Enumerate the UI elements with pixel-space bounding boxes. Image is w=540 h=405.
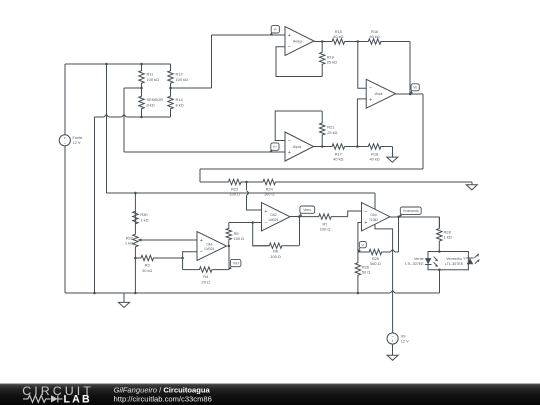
- LED D1 emission arrows: [434, 257, 438, 261]
- node R28 to LED box top: [438, 250, 441, 253]
- resistor R7: [299, 214, 347, 219]
- svg-text:R28: R28: [444, 229, 451, 234]
- op-amp IAout: [366, 79, 395, 108]
- svg-text:40 kΩ: 40 kΩ: [369, 34, 379, 39]
- node bridge left mid junction: [140, 87, 143, 90]
- resistor R5 to OA2 inverting input: [226, 223, 231, 247]
- resistor R15: [322, 39, 358, 44]
- wire output corner down to R28: [438, 217, 440, 228]
- node R3 left junction: [134, 257, 137, 260]
- svg-text:Vcomando: Vcomando: [403, 209, 419, 213]
- svg-text:8 kΩ: 8 kΩ: [176, 103, 184, 108]
- voltage source Fonte 12 V: [59, 135, 70, 146]
- node OA1 output junction: [228, 245, 231, 248]
- op-amp OA4 TL082: [362, 203, 391, 232]
- wire V+ branch to IApos input: [124, 151, 285, 153]
- wire IAneg feedback loop: [276, 47, 322, 77]
- resistor R16: [358, 39, 410, 44]
- junction dots ground rail: [93, 292, 96, 295]
- wire OA1 output down to R4: [228, 246, 230, 270]
- svg-text:Verde: Verde: [414, 257, 424, 261]
- potentiometer R22 wiper arrow: [137, 239, 141, 242]
- svg-text:−: −: [288, 138, 291, 144]
- node R26 ground rail junction: [357, 292, 360, 295]
- net flag Verro: [299, 213, 300, 217]
- svg-text:R19: R19: [327, 54, 334, 59]
- svg-text:IAout: IAout: [375, 92, 383, 96]
- svg-text:20 kΩ: 20 kΩ: [142, 268, 152, 273]
- wire IApos feedback loop: [275, 111, 322, 141]
- node IAneg output junction: [321, 40, 324, 43]
- wire Vo horizontal run: [200, 168, 423, 170]
- wire bridge bottom to ground rail: [94, 117, 96, 293]
- svg-text:25 kΩ: 25 kΩ: [327, 60, 337, 65]
- wire feedback up to output: [298, 217, 300, 246]
- wire OA4 output to R28: [390, 216, 439, 218]
- svg-text:+: +: [369, 97, 372, 103]
- svg-text:R22: R22: [126, 235, 133, 240]
- svg-text:−: −: [200, 250, 203, 256]
- svg-text:−: −: [369, 86, 372, 92]
- svg-text:25 kΩ: 25 kΩ: [327, 130, 337, 135]
- wire hop R25 over 12V drop: [390, 250, 395, 252]
- op-amp IApos: [285, 132, 314, 161]
- resistor R28: [437, 217, 442, 252]
- svg-text:+: +: [288, 150, 291, 156]
- node R3-R4 junction: [181, 257, 184, 260]
- node R17-R18 junction: [356, 145, 359, 148]
- svg-text:−: −: [364, 209, 367, 215]
- wire hop bridge rail over 12V drop: [104, 115, 109, 117]
- wire V+ branch vertical: [123, 88, 125, 152]
- svg-text:LM324: LM324: [269, 218, 279, 222]
- svg-text:http://circuitlab.com/c33cm86: http://circuitlab.com/c33cm86: [114, 395, 212, 404]
- svg-text:R6: R6: [273, 249, 278, 254]
- net flag Vcomando: [399, 214, 401, 217]
- svg-text:GilFangueiro / Circuitoagua: GilFangueiro / Circuitoagua: [114, 386, 211, 395]
- resistor R12 bridge top-right: [168, 64, 173, 88]
- svg-text:100 Ω: 100 Ω: [264, 192, 275, 197]
- svg-text:OA1: OA1: [206, 242, 213, 246]
- svg-text:R14: R14: [176, 97, 184, 102]
- svg-text:OA4: OA4: [370, 213, 377, 217]
- svg-text:LAB: LAB: [64, 394, 92, 405]
- svg-text:1 kΩ: 1 kΩ: [125, 241, 133, 246]
- op-amp IAneg: [285, 27, 314, 56]
- wire IAout output to Vo: [396, 93, 423, 95]
- node R15-R16 junction: [357, 40, 360, 43]
- LED D2 emission arrows: [474, 254, 478, 258]
- wire divider tap down to OA2 with hop: [246, 182, 248, 190]
- svg-text:100 kΩ: 100 kΩ: [147, 77, 160, 82]
- wire R7 to OA4 inverting input: [348, 211, 362, 217]
- wire hop ground rail over V9 branch: [390, 291, 395, 293]
- wire bridge left mid node stub: [124, 87, 142, 89]
- svg-text:Vo: Vo: [413, 86, 417, 90]
- wire bottom ground rail: [65, 292, 390, 294]
- svg-text:R7: R7: [323, 221, 328, 226]
- node Vo junction: [409, 93, 412, 96]
- resistor SENSOR bridge bottom-left: [139, 88, 144, 117]
- svg-text:8 kΩ: 8 kΩ: [147, 103, 155, 108]
- wire OA2 feedback loop: [253, 223, 270, 246]
- wire Fonte positive lead up to top rail: [64, 64, 66, 135]
- op-amp OA1 LM324: [197, 232, 227, 261]
- wire bridge bottom rail with hops: [95, 116, 105, 118]
- wire LED parallel box: [428, 252, 468, 270]
- voltage source V9 12 V: [387, 333, 398, 344]
- svg-text:VI: VI: [361, 243, 364, 247]
- wire LED box bottom down to ground rail: [438, 270, 440, 293]
- resistor R6 feedback: [253, 243, 300, 248]
- svg-text:−: −: [264, 221, 267, 227]
- footer bar: [0, 384, 540, 405]
- svg-text:100 Ω: 100 Ω: [320, 227, 331, 232]
- svg-text:R3: R3: [145, 263, 150, 268]
- svg-text:V+: V+: [273, 145, 277, 149]
- node feedback junction on OA4 output: [397, 216, 400, 219]
- svg-text:R11: R11: [147, 72, 154, 77]
- resistor R21 feedback: [320, 111, 325, 147]
- wire Vo down to lower stage: [422, 94, 424, 169]
- svg-text:R25: R25: [372, 256, 379, 261]
- svg-text:1 kΩ: 1 kΩ: [444, 235, 452, 240]
- wire 12V mid distribution rail: [106, 192, 375, 194]
- svg-text:V-: V-: [274, 28, 277, 32]
- node OA2 inverting junction: [251, 221, 254, 224]
- svg-text:560 Ω: 560 Ω: [370, 261, 381, 266]
- ground symbol V9: [392, 344, 394, 355]
- svg-text:R26: R26: [362, 264, 369, 269]
- node OA2 output junction: [298, 215, 301, 218]
- wire IApos output: [314, 146, 323, 148]
- node top rail 12V drop junction: [105, 63, 108, 66]
- svg-text:−: −: [288, 45, 291, 51]
- node SENSOR bottom junction: [140, 116, 143, 119]
- node LED box bottom to rail: [438, 268, 441, 271]
- svg-text:+: +: [264, 209, 267, 215]
- wire V- branch vertical: [211, 35, 213, 88]
- net flag V-: [270, 33, 272, 36]
- resistor R18: [357, 144, 392, 149]
- node R23-R24 divider junction: [245, 181, 248, 184]
- svg-text:+: +: [364, 221, 367, 227]
- wire 12V rail drop at right toward V9: [375, 193, 393, 333]
- potentiometer R22: [133, 224, 138, 293]
- svg-text:1 kΩ: 1 kΩ: [140, 217, 148, 222]
- svg-text:SENSOR: SENSOR: [147, 97, 164, 102]
- op-amp OA2 LM324: [262, 203, 291, 232]
- wire 12V drop from top rail down to mid rail: [105, 64, 107, 193]
- net flag Vref: [229, 266, 232, 269]
- resistor R26 to ground: [355, 252, 360, 293]
- resistor R14 bridge bottom-right: [168, 88, 173, 117]
- svg-text:IApos: IApos: [293, 145, 302, 149]
- resistor R3: [135, 255, 182, 260]
- net flag VI: [358, 247, 360, 252]
- wire +12V top rail: [65, 63, 171, 65]
- wire bridge right mid node stub: [171, 87, 212, 89]
- svg-text:R4: R4: [203, 274, 209, 279]
- svg-text:Vref: Vref: [233, 261, 239, 265]
- wire OA2 output: [290, 216, 299, 218]
- svg-text:IAneg: IAneg: [293, 39, 302, 43]
- wire R24 to ground run: [278, 181, 472, 183]
- wire junction to IAout non-inverting input: [357, 99, 366, 147]
- net flag Vo: [410, 90, 412, 94]
- svg-text:Verro: Verro: [303, 208, 311, 212]
- svg-text:100 Ω: 100 Ω: [234, 236, 245, 241]
- resistor R4 feedback: [183, 267, 229, 272]
- svg-text:R21: R21: [327, 125, 334, 130]
- svg-text:50 Ω: 50 Ω: [362, 270, 370, 275]
- LED D1 Verde green cathode-down: [425, 258, 432, 264]
- resistor R30: [133, 193, 138, 224]
- wire V- branch to IAneg input: [212, 34, 286, 36]
- svg-text:R30: R30: [140, 212, 148, 217]
- wire hop bridge rail over V+ branch: [122, 115, 127, 117]
- LED D2 Vermelho red anode-up: [467, 258, 474, 264]
- svg-text:12 V: 12 V: [401, 339, 409, 344]
- svg-text:+: +: [288, 33, 291, 39]
- ground symbol at R24: [471, 182, 473, 185]
- svg-text:TL082: TL082: [369, 218, 378, 222]
- resistor R25 hysteresis feedback: [358, 249, 390, 254]
- svg-text:40 kΩ: 40 kΩ: [369, 157, 379, 162]
- svg-text:LM324: LM324: [205, 247, 215, 251]
- svg-text:100 kΩ: 100 kΩ: [176, 77, 189, 82]
- wire OA4 non-inverting input down to VI node: [358, 223, 362, 253]
- net flag V+: [270, 150, 272, 152]
- wire Fonte negative lead down to ground rail: [64, 146, 66, 293]
- node bridge right mid junction: [169, 87, 172, 90]
- wire R3 node to OA1 inverting input: [183, 252, 197, 270]
- resistor R19 feedback: [320, 42, 325, 77]
- resistor R23: [200, 179, 247, 184]
- svg-text:Vermelho “I”: Vermelho “I”: [446, 257, 467, 261]
- svg-text:OA2: OA2: [270, 213, 277, 217]
- svg-text:LTL-307EE: LTL-307EE: [405, 262, 424, 266]
- node R11 top junction: [140, 63, 143, 66]
- svg-text:R12: R12: [176, 72, 183, 77]
- wire U-turn into R23: [199, 169, 201, 182]
- resistor R24: [247, 179, 278, 184]
- ground symbol main rail: [123, 293, 125, 302]
- wire IAneg output: [314, 41, 322, 43]
- wire hysteresis feedback up to OA4 output: [398, 217, 400, 252]
- svg-text:40 kΩ: 40 kΩ: [333, 157, 343, 162]
- svg-text:100 Ω: 100 Ω: [229, 192, 240, 197]
- node IApos output junction: [321, 145, 324, 148]
- CircuitLab logo resistor-diode glyph: [23, 395, 63, 402]
- ground symbol at R18: [391, 147, 393, 158]
- wire junction to IAout inverting input: [358, 42, 366, 89]
- node R30 top junction on 12V rail: [134, 192, 137, 195]
- svg-text:LTL-307EE: LTL-307EE: [445, 262, 464, 266]
- svg-text:20 Ω: 20 Ω: [202, 280, 210, 285]
- svg-text:12 V: 12 V: [73, 140, 81, 145]
- svg-text:100 Ω: 100 Ω: [270, 254, 281, 259]
- wire R5 to OA2 inverting input: [229, 222, 262, 224]
- resistor R11 bridge top-left: [139, 64, 144, 88]
- wire R16 feedback down to output node: [409, 42, 411, 95]
- svg-text:40 kΩ: 40 kΩ: [333, 34, 343, 39]
- wire wiper to OA1 non-inverting input: [142, 239, 198, 241]
- resistor R17: [322, 144, 357, 149]
- svg-text:+: +: [200, 238, 203, 244]
